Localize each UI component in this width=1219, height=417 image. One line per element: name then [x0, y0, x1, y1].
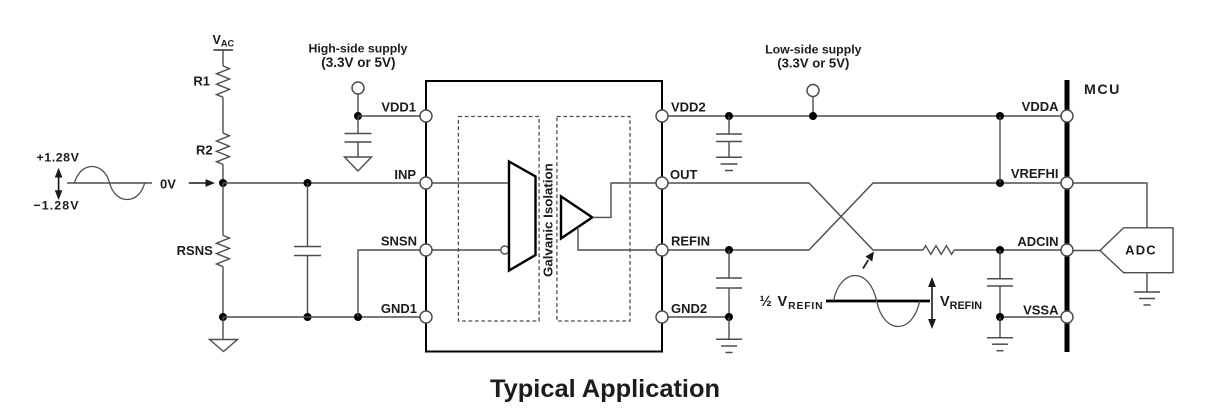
- pin OUT: [656, 167, 698, 189]
- svg-text:VSSA: VSSA: [1023, 303, 1059, 318]
- wire supply to VDD2 rail: [812, 97, 814, 117]
- wire R2 to input node: [222, 164, 224, 183]
- svg-text:−1.28V: −1.28V: [33, 199, 79, 213]
- wire REFIN to buffer: [578, 227, 662, 250]
- ground GND2: [716, 317, 742, 353]
- pin REFIN: [656, 233, 710, 256]
- svg-text:R2: R2: [196, 143, 213, 158]
- svg-text:+1.28V: +1.28V: [37, 151, 80, 165]
- wire resistor to ADCIN pin: [954, 249, 1064, 251]
- svg-text:VREFHI: VREFHI: [1011, 166, 1059, 181]
- junction REFIN cap: [725, 246, 733, 254]
- junction input node: [219, 179, 227, 187]
- junction filter cap bottom: [304, 313, 312, 321]
- junction filter cap top: [304, 179, 312, 187]
- pin SNSN: [381, 233, 432, 256]
- capacitor VDD2 bypass: [716, 116, 742, 157]
- junction ground node: [219, 313, 227, 321]
- capacitor input filter: [294, 183, 321, 317]
- op-amp U1 package box: [426, 81, 662, 352]
- wire GND1 rail: [223, 316, 421, 318]
- high-side supply label: [308, 42, 407, 70]
- svg-text:OUT: OUT: [670, 167, 698, 182]
- svg-text:VDD1: VDD1: [381, 100, 416, 115]
- svg-text:GND1: GND1: [381, 301, 417, 316]
- svg-text:INP: INP: [394, 167, 416, 182]
- dashed box high-side die: [458, 117, 539, 322]
- junction ADCIN cap: [996, 246, 1004, 254]
- wire OUT crossover to ADCIN path: [668, 183, 923, 250]
- svg-text:Galvanic Isolation: Galvanic Isolation: [541, 163, 556, 277]
- junction GND2: [725, 313, 733, 321]
- svg-text:RSNS: RSNS: [177, 243, 213, 258]
- pin VDDA: [1022, 99, 1073, 122]
- ground high-side cap triangle: [345, 157, 372, 171]
- pin ADCIN: [1017, 234, 1073, 256]
- svg-text:High-side supply: High-side supply: [308, 42, 407, 56]
- junction VDD2 cap: [725, 112, 733, 120]
- wire supply to VDD1: [357, 94, 359, 116]
- svg-text:GND2: GND2: [671, 301, 707, 316]
- svg-text:MCU: MCU: [1084, 82, 1121, 98]
- wire ADCIN to ADC: [1073, 250, 1100, 252]
- junction VREFHI tie bottom: [996, 179, 1004, 187]
- resistor RSNS: [177, 183, 230, 317]
- buffer amplifier triangle: [561, 196, 592, 238]
- wire VREFHI tie: [999, 116, 1001, 183]
- resistor R1: [193, 66, 229, 97]
- svg-text:ADC: ADC: [1125, 242, 1157, 257]
- ground ADC: [1134, 273, 1160, 305]
- svg-text:VDDA: VDDA: [1022, 99, 1059, 114]
- svg-text:(3.3V or 5V): (3.3V or 5V): [321, 55, 395, 70]
- junction VDD1 node: [354, 112, 362, 120]
- inverting bubble: [501, 246, 509, 254]
- junction VREFHI tie top: [996, 112, 1004, 120]
- MCU boundary line: [1065, 80, 1070, 352]
- wire VDD2 rail: [668, 115, 1064, 117]
- pin VREFHI: [1011, 166, 1073, 189]
- wire SNSN to GND1 rail: [358, 250, 421, 317]
- wire INP to modulator: [426, 182, 509, 184]
- capacitor ADCIN: [987, 250, 1013, 317]
- ground VDD2 cap: [716, 157, 742, 170]
- wire input node to INP pin: [223, 182, 421, 184]
- wire GND2: [668, 316, 729, 318]
- capacitor high-side bypass: [345, 116, 372, 157]
- junction VSSA: [996, 313, 1004, 321]
- wire SNSN to modulator bubble: [426, 249, 501, 251]
- junction supply: [809, 112, 817, 120]
- svg-text:R1: R1: [193, 74, 210, 89]
- node VAC terminal: [213, 33, 235, 50]
- modulator trapezoid: [509, 162, 536, 271]
- node 0V label and arrow: [160, 177, 215, 192]
- wire VREFHI to ADC: [1073, 183, 1147, 228]
- svg-text:0V: 0V: [160, 177, 176, 192]
- svg-text:ADCIN: ADCIN: [1017, 234, 1058, 249]
- high-side supply terminal: [352, 82, 364, 94]
- svg-text:SNSN: SNSN: [381, 233, 417, 248]
- pin GND2: [656, 301, 707, 323]
- half VREFIN sine annotation: [760, 276, 983, 330]
- wire R1 to R2: [222, 97, 224, 133]
- ADC block: [1100, 228, 1173, 273]
- low-side supply label: [765, 43, 861, 71]
- resistor series ADCIN: [923, 246, 954, 255]
- wire VSSA: [1000, 316, 1064, 318]
- dashed box low-side die: [557, 117, 630, 322]
- pin GND1: [381, 301, 432, 323]
- pin INP: [394, 167, 432, 189]
- svg-text:(3.3V or 5V): (3.3V or 5V): [777, 56, 849, 71]
- capacitor REFIN: [716, 250, 742, 317]
- wire VAC to R1: [222, 50, 224, 66]
- ground high-side triangle: [210, 317, 238, 352]
- ground VSSA: [987, 317, 1013, 351]
- sine source annotation +1.28V/-1.28V: [33, 151, 152, 213]
- junction SNSN drop: [354, 313, 362, 321]
- wire REFIN crossover to VREFHI path: [668, 183, 1064, 250]
- svg-text:Typical Application: Typical Application: [490, 375, 720, 403]
- pin VSSA: [1023, 303, 1073, 324]
- low-side supply terminal: [807, 85, 819, 97]
- svg-text:Low-side supply: Low-side supply: [765, 43, 861, 57]
- annotation arrow to ADCIN line: [863, 252, 874, 269]
- pin VDD2: [656, 100, 706, 123]
- svg-text:VDD2: VDD2: [671, 100, 706, 115]
- svg-text:REFIN: REFIN: [671, 233, 710, 248]
- wire to VDD1 pin: [358, 115, 421, 117]
- resistor R2: [196, 133, 230, 164]
- pin VDD1: [381, 100, 432, 123]
- wire buffer output to OUT pin: [592, 183, 662, 217]
